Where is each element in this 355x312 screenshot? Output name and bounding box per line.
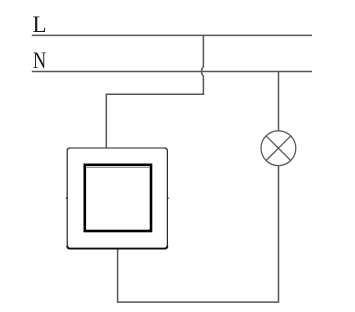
svg-text:N: N xyxy=(33,48,46,73)
svg-text:L: L xyxy=(33,12,47,37)
